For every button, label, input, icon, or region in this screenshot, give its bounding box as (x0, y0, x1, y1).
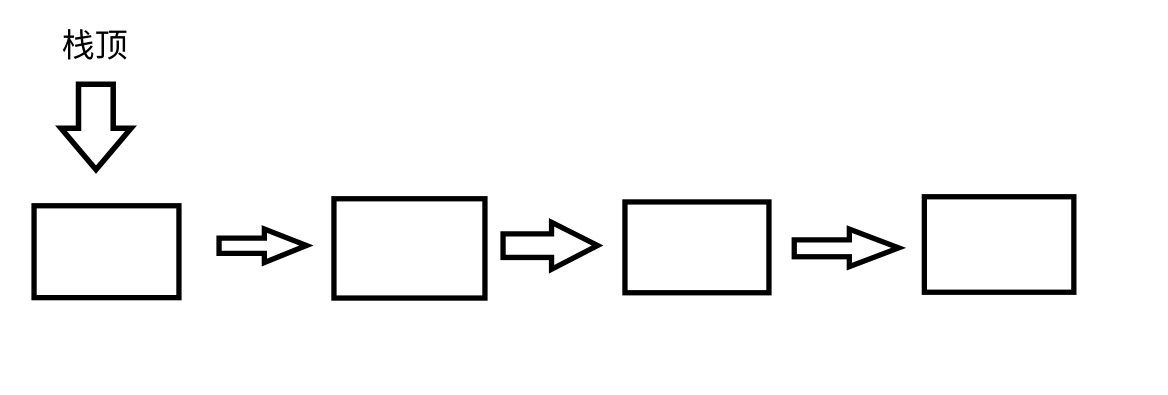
right block arrow 2 (503, 222, 598, 269)
box 4 (stack node) (924, 197, 1074, 293)
box 2 (stack node) (334, 199, 485, 298)
right block arrow 1 (219, 229, 306, 262)
box 3 (stack node) (625, 202, 769, 293)
label 栈顶 (stack top) char 栈 (63, 29, 94, 59)
box 1 (stack node) (34, 206, 179, 298)
down block arrow pointing to box 1 (61, 84, 131, 169)
right block arrow 3 (794, 229, 898, 267)
label 栈顶 (stack top) char 顶 (96, 31, 126, 60)
